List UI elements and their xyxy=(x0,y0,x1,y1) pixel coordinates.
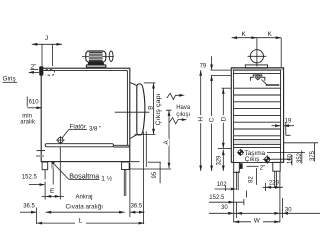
dimension A line xyxy=(166,110,172,168)
dimension B extension top xyxy=(144,82,156,84)
first louver extension for D xyxy=(222,87,232,89)
right anchor bolt xyxy=(124,170,126,197)
dimension 152.5 arrow xyxy=(209,201,244,203)
dimension 152.5 tick xyxy=(243,199,245,205)
left foot side view xyxy=(234,162,240,172)
svg-text:Giriş: Giriş xyxy=(3,76,16,83)
fan scroll bottom curve xyxy=(130,135,137,139)
svg-text:152.5: 152.5 xyxy=(22,175,38,181)
dimension 329 line xyxy=(222,150,224,171)
dimension W line xyxy=(234,221,280,223)
dimension 30 baseline xyxy=(209,212,320,214)
dimension L line xyxy=(37,222,145,224)
bottom reference line left part xyxy=(218,148,232,150)
body outer with gray frame xyxy=(231,68,283,163)
float leader xyxy=(62,130,87,138)
inlet centerline with arrow xyxy=(29,71,39,73)
drain leader xyxy=(53,164,69,184)
svg-text:aralık: aralık xyxy=(20,120,36,126)
svg-text:Ankraj: Ankraj xyxy=(76,195,93,201)
svg-text:L: L xyxy=(79,217,83,224)
float valve crosshair side xyxy=(256,75,260,79)
dimension 160 stem xyxy=(291,155,293,166)
svg-text:329: 329 xyxy=(217,155,223,166)
tank body outer xyxy=(41,68,130,161)
tank body inner wall xyxy=(44,71,128,146)
svg-text:352: 352 xyxy=(297,152,303,163)
svg-text:30: 30 xyxy=(221,205,228,211)
first louver extension xyxy=(211,74,231,76)
dimension 36.5 left arrow xyxy=(20,211,36,213)
dimension 229 line xyxy=(263,186,284,188)
motor M1 centerline xyxy=(82,55,114,57)
82 extension xyxy=(256,168,258,185)
dimension 19 arrows xyxy=(272,125,281,127)
float valve symbol xyxy=(56,136,64,144)
svg-text:95: 95 xyxy=(152,171,158,178)
dimension J line xyxy=(32,43,62,45)
dimension 19 extension xyxy=(286,123,291,136)
svg-text:K: K xyxy=(268,31,273,38)
body top extension xyxy=(211,69,232,71)
svg-text:E: E xyxy=(50,188,54,195)
motor M1 body xyxy=(86,51,106,62)
water level mark gray xyxy=(36,155,44,157)
svg-text:B: B xyxy=(149,106,155,110)
outlet stub dark xyxy=(240,163,243,169)
Cikis symbol xyxy=(265,157,270,162)
dimension 229 tick xyxy=(265,183,267,191)
svg-text:K: K xyxy=(242,31,247,38)
motor M1 base plate xyxy=(86,65,105,67)
dimension 375 stem xyxy=(314,143,316,162)
drain stub xyxy=(51,163,54,169)
svg-text:229: 229 xyxy=(269,181,280,187)
bottom reference line right part xyxy=(284,142,318,144)
svg-text:36.5: 36.5 xyxy=(23,203,35,209)
dimension 36.5 right arrows xyxy=(130,211,145,213)
svg-text:J: J xyxy=(45,35,48,42)
dimension 102 arrow xyxy=(215,188,236,190)
Cikis leader xyxy=(272,158,291,160)
dimension B extension bottom xyxy=(135,134,156,136)
svg-text:2": 2" xyxy=(260,166,265,172)
motor M1 base block xyxy=(87,62,104,65)
louver bottom band xyxy=(234,140,281,145)
bolts under feet xyxy=(237,171,277,190)
dimension K right extension xyxy=(280,38,282,67)
dimension 352 stem xyxy=(301,151,303,164)
95 top reference xyxy=(148,161,161,163)
eyebolt base plate xyxy=(245,65,267,68)
fan outlet lens xyxy=(137,84,145,135)
dimension C line xyxy=(211,75,213,171)
dimension A label xyxy=(163,139,170,146)
dimension 79 arrow xyxy=(211,56,213,70)
eyebolt centerline xyxy=(256,38,258,67)
dimension B line xyxy=(153,83,155,134)
svg-text:79: 79 xyxy=(200,64,207,70)
svg-text:çıkışı: çıkışı xyxy=(176,112,190,118)
svg-text:152.5: 152.5 xyxy=(209,195,225,201)
extension lines bottom left view xyxy=(37,132,147,225)
svg-text:D: D xyxy=(220,116,227,121)
610 min clearance tick xyxy=(26,97,28,107)
dimension E line xyxy=(42,195,65,197)
svg-text:3/8 ": 3/8 " xyxy=(89,127,101,133)
fan centerline xyxy=(115,111,150,113)
svg-text:82: 82 xyxy=(248,176,254,183)
W extension lines xyxy=(234,171,283,222)
inlet 2in fitting xyxy=(39,66,43,75)
Tasima leader xyxy=(267,151,305,153)
fan scroll top curve xyxy=(130,83,137,86)
svg-text:1 ½: 1 ½ xyxy=(101,174,112,182)
dimension 95 line xyxy=(159,162,161,183)
inlet hidden pipe dashes xyxy=(46,70,55,76)
louver lines xyxy=(234,88,281,136)
svg-text:H: H xyxy=(198,117,205,122)
body top gray band xyxy=(232,68,283,70)
svg-text:C: C xyxy=(209,117,216,122)
dimension 102 tick xyxy=(224,185,226,191)
2in label side xyxy=(247,165,259,167)
svg-text:36.5: 36.5 xyxy=(131,203,143,209)
fan plenum bottom xyxy=(114,145,130,147)
eyebolt U1 xyxy=(250,50,263,63)
svg-text:Flatör: Flatör xyxy=(70,123,87,130)
Tasima symbol xyxy=(238,150,243,155)
dimension D label xyxy=(219,115,227,123)
float body side xyxy=(266,84,280,85)
body inner white xyxy=(234,70,281,162)
float arm bar xyxy=(45,144,113,147)
dimension H label xyxy=(196,115,204,123)
dimension H line xyxy=(200,70,202,171)
svg-text:Cıvata aralığı: Cıvata aralığı xyxy=(66,205,104,211)
dimension 152.5 left arrow xyxy=(29,184,44,186)
top inner line xyxy=(234,73,281,75)
svg-text:375: 375 xyxy=(310,150,316,161)
float arm side xyxy=(262,80,268,85)
airflow squiggle 2 xyxy=(169,118,182,124)
left leg xyxy=(42,162,48,170)
motor M1 pulley xyxy=(109,51,113,62)
dimension K line xyxy=(232,37,282,39)
svg-text:W: W xyxy=(254,217,261,224)
dimension E extension lines xyxy=(45,147,60,200)
left anchor bolt xyxy=(44,170,46,180)
airflow squiggle 1 xyxy=(167,93,180,99)
svg-text:Çıkış: Çıkış xyxy=(245,156,260,163)
right leg xyxy=(122,162,130,170)
610 arrow xyxy=(27,107,41,109)
float bracket side view xyxy=(250,75,264,81)
bolt span dimension line xyxy=(46,211,125,213)
svg-text:A: A xyxy=(164,140,170,144)
right foot side view xyxy=(273,162,280,171)
svg-text:610: 610 xyxy=(29,99,40,105)
dimension J extension lines xyxy=(42,44,53,67)
svg-text:30: 30 xyxy=(285,207,292,213)
svg-text:Çıkış çapı: Çıkış çapı xyxy=(156,93,162,125)
dimension D line xyxy=(222,88,224,148)
svg-text:Hava: Hava xyxy=(176,105,191,111)
dimension C label xyxy=(208,116,216,124)
motor M1 fins xyxy=(89,52,103,62)
water level mark dark xyxy=(37,150,46,152)
svg-text:160: 160 xyxy=(287,153,293,164)
ground segment right of tank xyxy=(130,162,171,169)
